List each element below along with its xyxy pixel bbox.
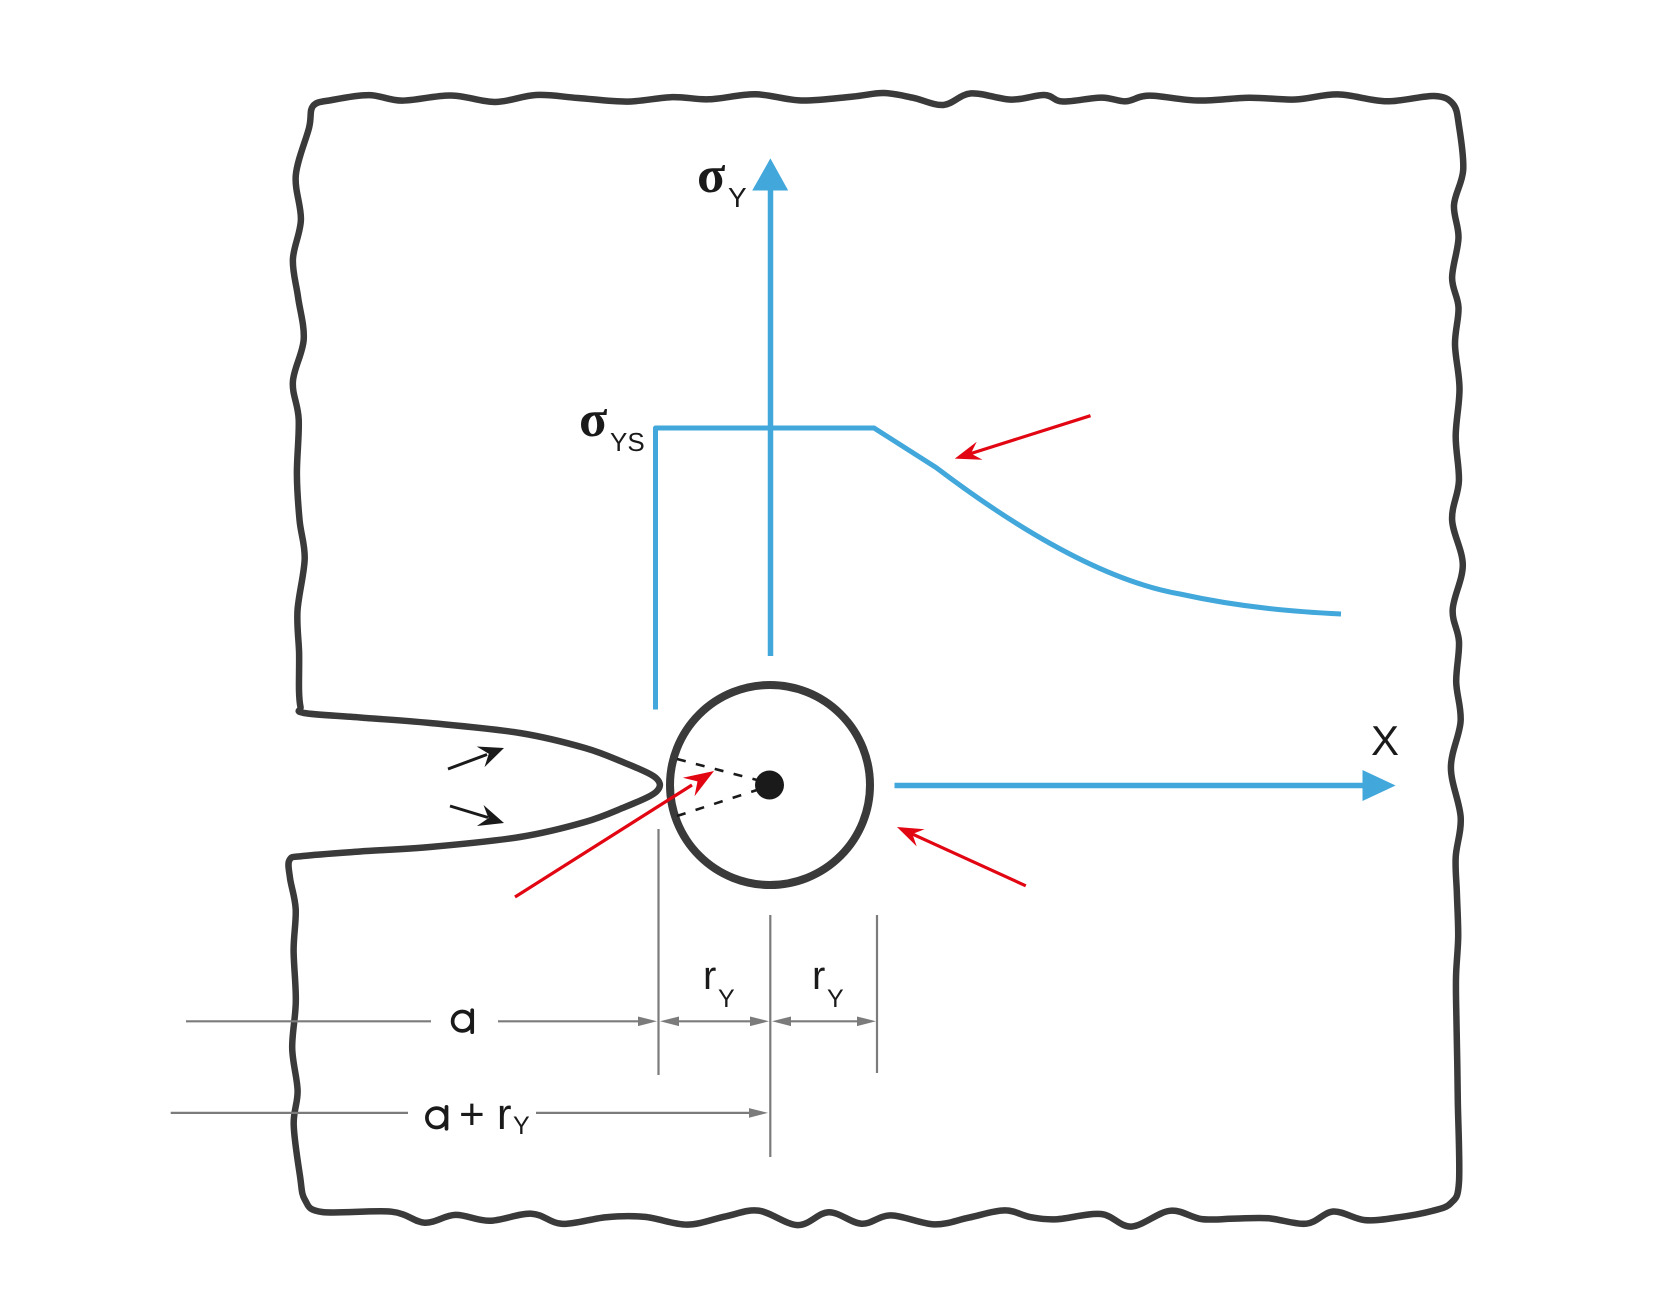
sigma_Y vertical axis — [768, 189, 774, 656]
dashed wedge lower — [677, 790, 757, 816]
svg-text:r: r — [703, 954, 716, 998]
red arrow to crack tip region — [515, 785, 692, 897]
plate border (wavy) with crack notch — [288, 93, 1463, 1227]
dimension segment r_Y right — [787, 1020, 861, 1022]
red arrow to curve — [963, 416, 1091, 456]
extension line at circle right x=877 — [876, 915, 878, 1073]
svg-text:σ: σ — [579, 391, 607, 448]
red arrow to circle right — [905, 831, 1026, 886]
black dot (effective crack tip) — [755, 771, 784, 800]
svg-text:X: X — [1371, 717, 1399, 764]
dimension segment r_Y left — [675, 1020, 755, 1022]
label a — [453, 1010, 473, 1032]
svg-text:r: r — [812, 954, 825, 998]
dashed wedge upper — [677, 759, 757, 780]
sigma_YS level line, drop to crack tip, and stress distribution curve — [656, 428, 1342, 710]
svg-text:Y: Y — [513, 1112, 530, 1140]
svg-text:+ r: + r — [459, 1090, 512, 1139]
label a + r_Y — [427, 1107, 447, 1129]
extension line at crack tip x=658.5 — [657, 829, 659, 1075]
plastic zone circle — [670, 685, 870, 885]
svg-text:Y: Y — [827, 985, 844, 1013]
svg-text:Y: Y — [718, 985, 735, 1013]
black arrow lower (in notch) — [450, 806, 488, 818]
extension line at circle center x=770.3 — [769, 915, 771, 1157]
X horizontal axis — [895, 783, 1365, 789]
dimension line a + r_Y — [171, 1112, 408, 1114]
svg-text:Y: Y — [728, 182, 747, 213]
svg-text:YS: YS — [610, 427, 645, 457]
svg-text:σ: σ — [697, 147, 725, 204]
black arrow upper (in notch) — [448, 755, 487, 770]
dimension line a — [186, 1020, 431, 1022]
